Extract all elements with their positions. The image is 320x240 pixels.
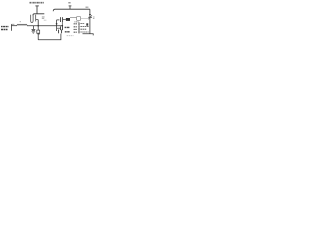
tube V1 plate [33,14,44,16]
connector row4 cap [78,31,79,34]
main rail left [12,25,18,27]
right drop wire [89,9,91,33]
connector row1 label [74,23,78,25]
junction dot mid [56,23,58,25]
mid vertical bus [56,20,58,31]
dark blob near bus [86,23,88,25]
connector row2 link [80,26,88,28]
wire tube2 to drop [81,18,90,20]
trimmer C4 arrow [88,15,92,19]
junction dot rail right [62,25,64,27]
label right of tube [42,17,45,18]
connector row4 link [80,31,88,33]
left text block line2 [1,29,8,31]
capacitor C3 plates [58,30,60,34]
grid-cap lead wire [36,6,38,14]
ground [32,31,36,33]
wire box to tube2 [70,17,76,19]
mark above coil [20,21,21,22]
top rail [53,9,90,11]
connector row3 link [80,28,86,30]
C3 value label [65,31,70,33]
resistor R1 [37,26,39,30]
C1 lower lead [61,22,63,26]
tube2 label [74,21,78,23]
trimmer C4 plate [89,14,91,16]
bottom wire [38,34,61,40]
left input post [11,24,13,31]
crystal box [66,18,70,21]
junction dot rail [37,25,39,27]
bottom exit wire [83,34,94,36]
capacitor C2 plates [60,26,62,30]
connector row3 cap [78,28,79,31]
connector row2 cap [78,25,79,28]
tube2 small envelope [77,17,81,21]
connector row1 cap [78,22,79,25]
connector row3 label [74,28,78,30]
connector row4 label [74,31,78,33]
cathode lead down [37,20,39,26]
coil L1 [17,24,27,25]
tube V1 cathode [35,15,37,22]
tube V1 heater loop [31,15,33,23]
resistor R1 dark blob [37,33,39,35]
C2 value label [65,26,70,28]
wire C1 to box [63,18,66,20]
C4 value label [93,17,95,18]
label above rail right [86,6,89,8]
capacitor C1 hook [57,19,60,21]
B+ stub [69,6,71,9]
B+ tiny label [68,2,70,4]
connector row1 link [80,23,84,25]
left text block line1 [1,26,9,28]
main rail [27,25,63,27]
capacitor C1 plates [60,17,62,22]
note text top [30,2,45,4]
capacitor C5 branch [32,26,34,30]
faint output label [67,35,74,37]
connector row2 label [74,26,78,28]
